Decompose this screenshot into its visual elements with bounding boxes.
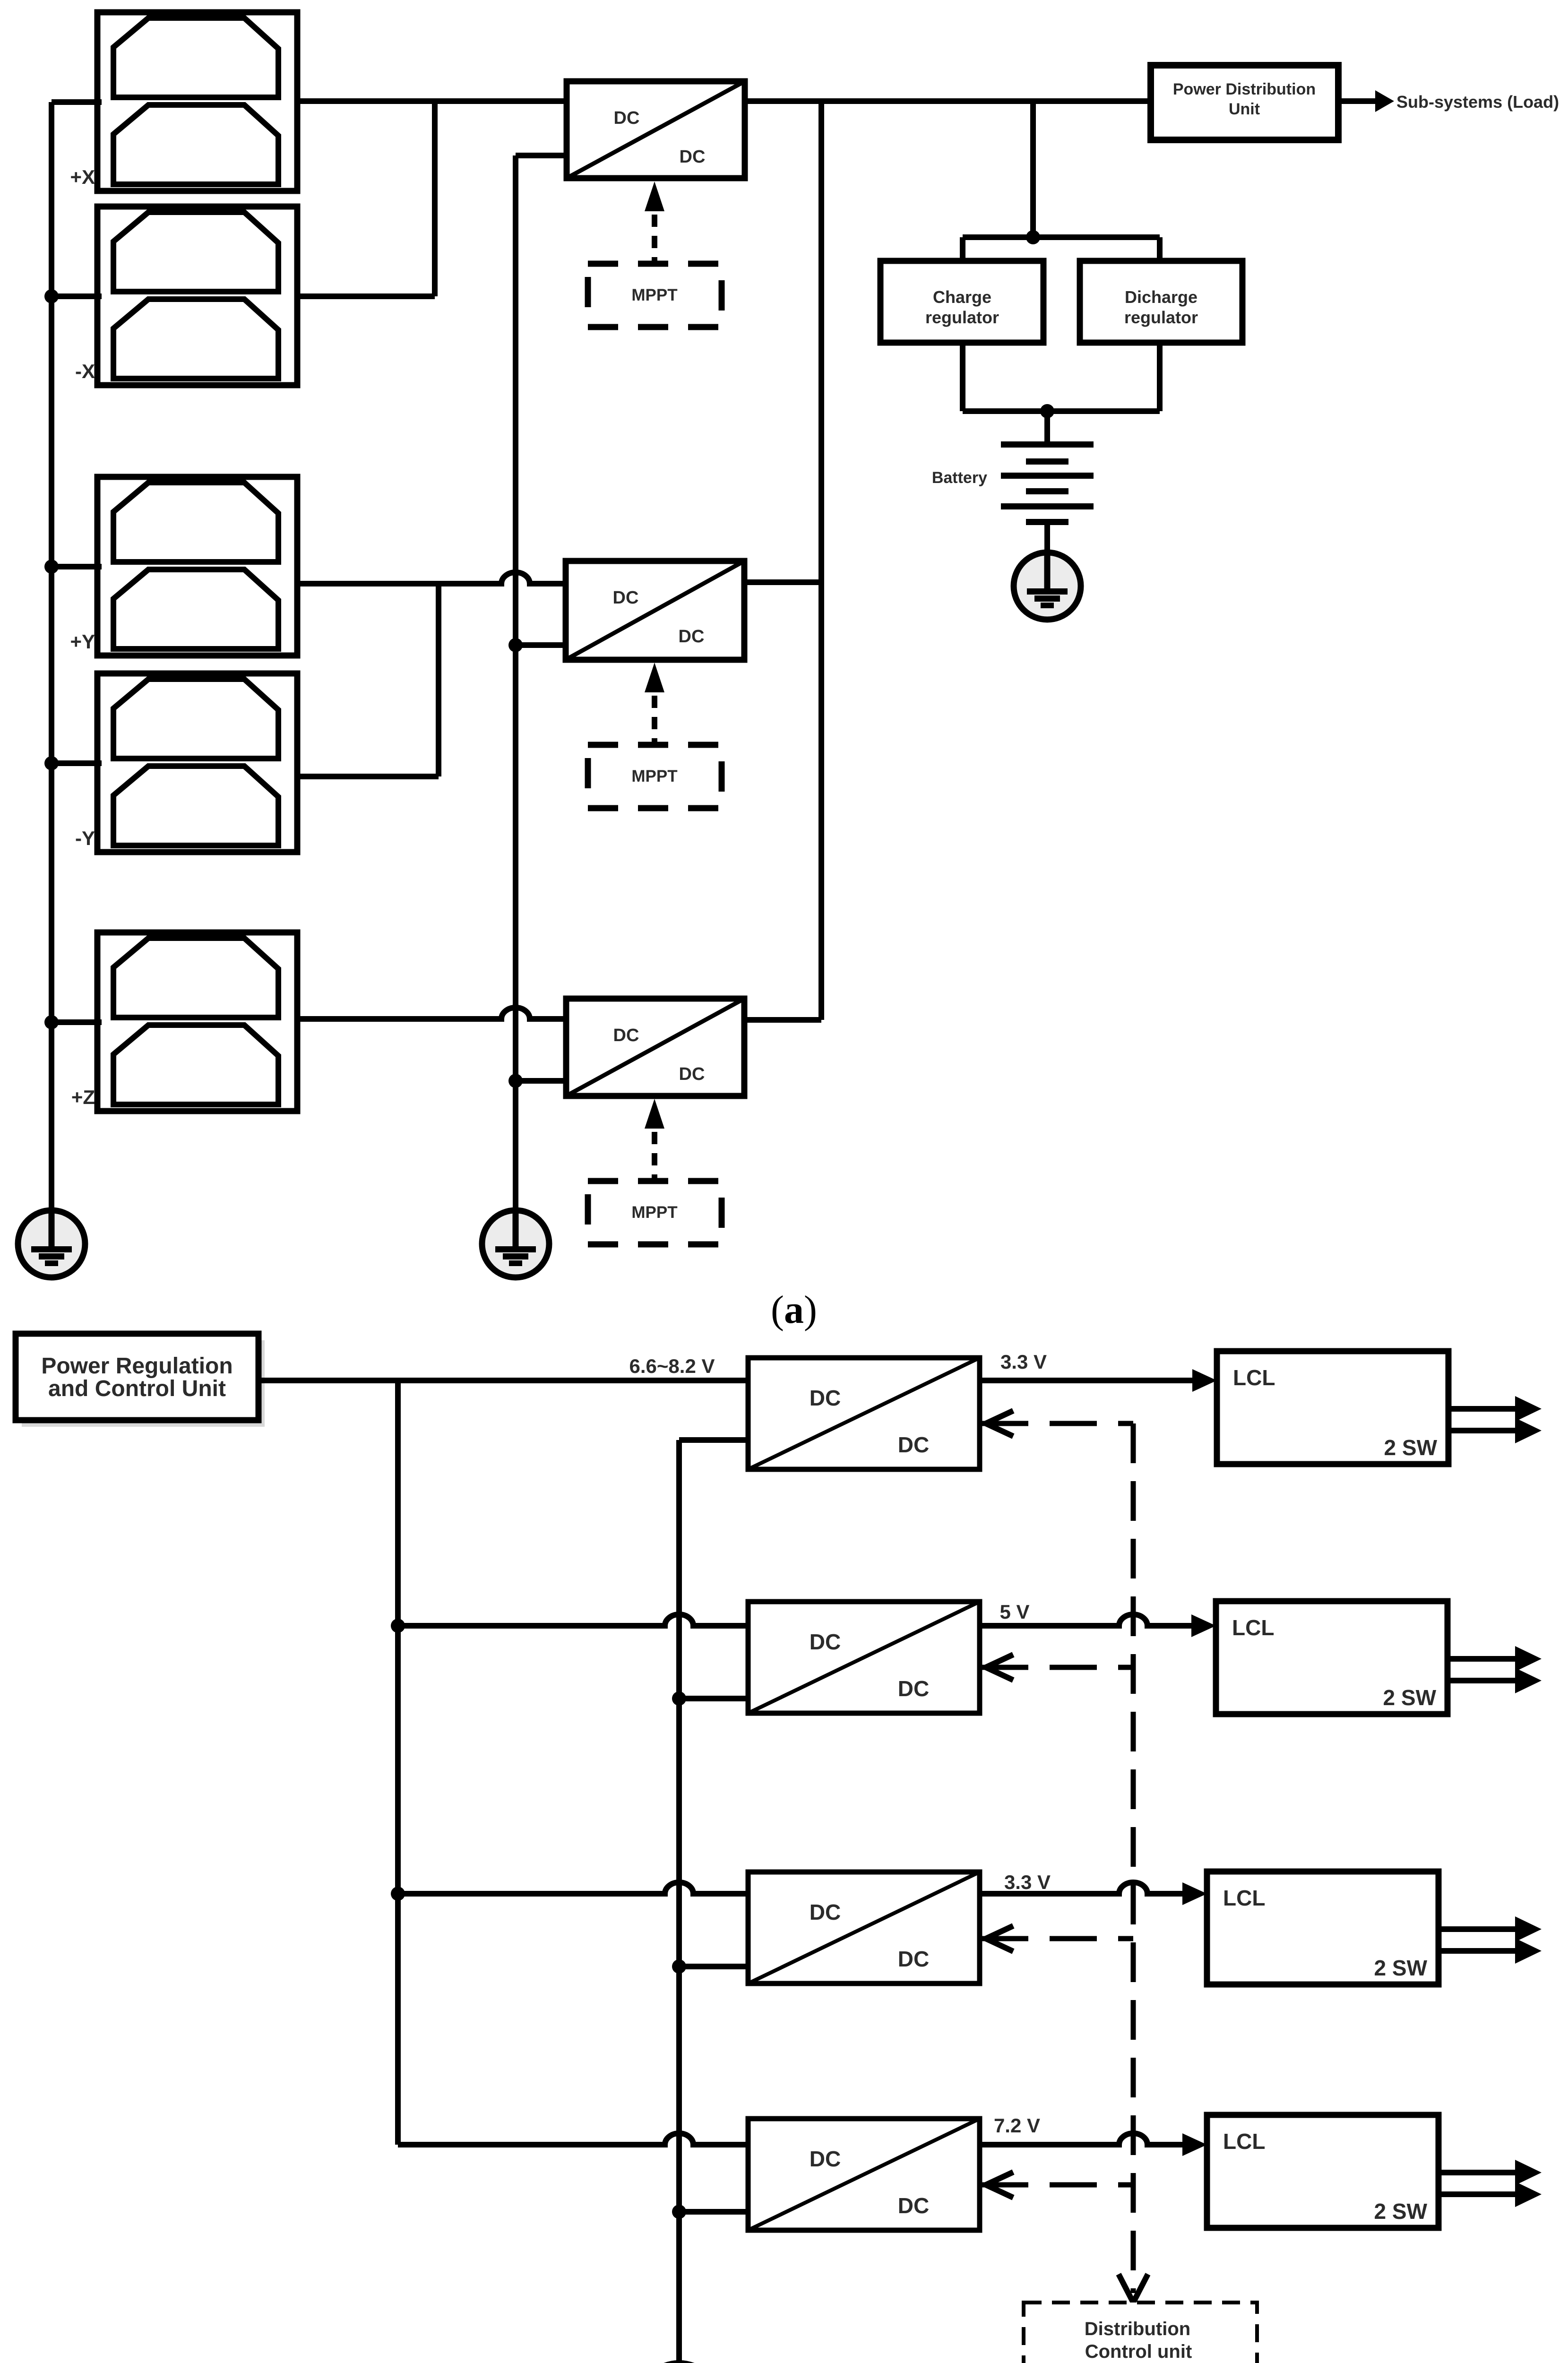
svg-text:-Y: -Y (75, 827, 95, 849)
svg-text:DC: DC (810, 1386, 841, 1410)
svg-text:3.3 V: 3.3 V (1000, 1351, 1047, 1373)
svg-text:DC: DC (679, 1064, 705, 1084)
svg-text:MPPT: MPPT (631, 767, 677, 785)
svg-text:3.3 V: 3.3 V (1004, 1871, 1051, 1893)
svg-text:2 SW: 2 SW (1374, 2199, 1428, 2224)
svg-text:6.6~8.2 V: 6.6~8.2 V (629, 1355, 715, 1377)
svg-text:DC: DC (679, 627, 705, 647)
svg-text:Power Distribution: Power Distribution (1173, 80, 1316, 98)
svg-text:+X: +X (70, 166, 95, 188)
svg-text:regulator: regulator (1124, 308, 1198, 327)
svg-text:LCL: LCL (1232, 1615, 1274, 1640)
svg-text:MPPT: MPPT (631, 1203, 677, 1222)
svg-text:DC: DC (810, 1630, 841, 1654)
svg-text:Power Regulation: Power Regulation (41, 1354, 233, 1379)
svg-text:DC: DC (898, 1676, 929, 1701)
svg-text:DC: DC (898, 1432, 929, 1457)
svg-text:LCL: LCL (1223, 2129, 1265, 2154)
svg-text:Charge: Charge (933, 287, 991, 307)
svg-text:DC: DC (810, 2147, 841, 2171)
svg-text:Sub-systems (Load): Sub-systems (Load) (1396, 92, 1559, 112)
svg-text:2 SW: 2 SW (1374, 1956, 1428, 1980)
svg-text:Dicharge: Dicharge (1125, 287, 1198, 307)
svg-text:Control unit: Control unit (1085, 2341, 1192, 2362)
svg-text:and Control Unit: and Control Unit (48, 1376, 226, 1401)
svg-text:5 V: 5 V (999, 1601, 1029, 1623)
svg-text:Distribution: Distribution (1085, 2319, 1190, 2339)
svg-text:Battery: Battery (932, 469, 987, 487)
svg-text:7.2 V: 7.2 V (994, 2114, 1040, 2137)
svg-text:regulator: regulator (925, 308, 999, 327)
svg-text:2 SW: 2 SW (1383, 1685, 1437, 1710)
svg-text:LCL: LCL (1233, 1365, 1275, 1390)
svg-text:DC: DC (898, 2193, 929, 2218)
svg-text:+Y: +Y (70, 630, 95, 653)
svg-text:MPPT: MPPT (631, 286, 677, 304)
svg-text:Unit: Unit (1229, 100, 1260, 118)
svg-text:DC: DC (613, 1026, 639, 1045)
svg-text:(a): (a) (771, 1288, 817, 1332)
svg-text:DC: DC (613, 588, 639, 608)
svg-text:DC: DC (680, 147, 706, 167)
svg-text:DC: DC (898, 1947, 929, 1971)
svg-text:DC: DC (810, 1900, 841, 1924)
svg-text:2 SW: 2 SW (1384, 1435, 1438, 1460)
svg-text:+Z: +Z (71, 1086, 95, 1108)
svg-text:LCL: LCL (1223, 1886, 1265, 1910)
svg-text:DC: DC (614, 108, 640, 128)
svg-text:-X: -X (75, 360, 95, 382)
